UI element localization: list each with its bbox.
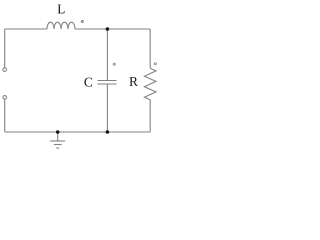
junction dot ground node	[56, 130, 60, 134]
ground bar 2	[54, 144, 62, 146]
wire right vertical lower	[149, 100, 151, 132]
label C	[84, 78, 92, 87]
wire bottom horizontal	[5, 131, 151, 133]
wire right vertical upper	[149, 29, 151, 68]
wire left vertical upper	[4, 29, 6, 68]
terminal circle upper left port	[3, 68, 7, 72]
label L	[58, 5, 65, 14]
capacitor C bottom plate	[98, 83, 117, 85]
junction dot node top (L-C-R)	[106, 27, 110, 31]
wire top horizontal left segment	[5, 28, 47, 30]
inductor L (4 arches)	[47, 22, 75, 29]
pin dot of resistor	[154, 63, 156, 65]
resistor R zigzag	[144, 68, 156, 100]
terminal circle lower left port	[3, 96, 7, 100]
capacitor C top plate	[98, 80, 117, 82]
pin dot of inductor	[81, 21, 83, 23]
junction dot node bottom (C-ground)	[106, 130, 110, 134]
wire top horizontal right segment	[75, 28, 150, 30]
ground stub wire	[57, 132, 59, 141]
wire capacitor branch lower	[106, 84, 108, 132]
wire capacitor branch upper	[106, 29, 108, 81]
ground bar 3	[56, 147, 59, 149]
label R	[129, 77, 138, 86]
wire left vertical lower	[4, 99, 6, 132]
ground bar 1	[50, 140, 65, 142]
pin dot of capacitor	[113, 63, 115, 65]
